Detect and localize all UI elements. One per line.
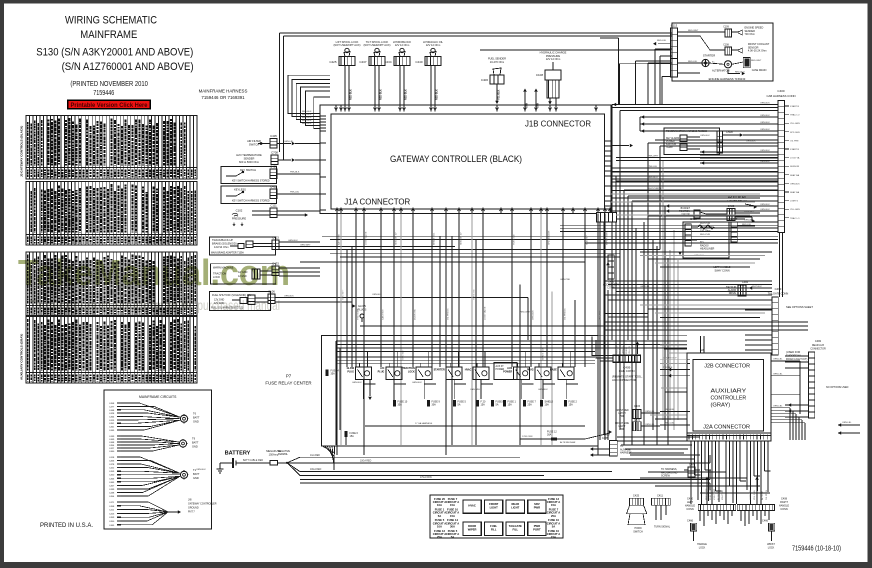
svg-text:C425: C425 bbox=[329, 60, 337, 64]
svg-text:12V 12 Ohm: 12V 12 Ohm bbox=[426, 43, 441, 47]
svg-text:ALTR RECHAR: ALTR RECHAR bbox=[560, 441, 576, 444]
svg-text:J2A CONNECTOR: J2A CONNECTOR bbox=[703, 425, 750, 431]
svg-text:C415: C415 bbox=[109, 420, 115, 422]
svg-text:C416: C416 bbox=[634, 419, 641, 422]
svg-text:STARTER: STARTER bbox=[434, 369, 445, 372]
svg-text:HVAC: HVAC bbox=[465, 369, 472, 372]
svg-text:BATT: BATT bbox=[193, 416, 200, 420]
svg-text:C458: C458 bbox=[109, 506, 115, 508]
svg-text:C415: C415 bbox=[634, 405, 641, 408]
svg-text:C439: C439 bbox=[109, 489, 115, 491]
svg-text:ACD CONNECTOR): ACD CONNECTOR) bbox=[612, 378, 637, 382]
svg-text:10A: 10A bbox=[545, 404, 550, 407]
svg-text:ORN-BLK: ORN-BLK bbox=[532, 310, 534, 320]
svg-text:ALTERNATOR: ALTERNATOR bbox=[712, 69, 730, 73]
svg-text:PLUG: PLUG bbox=[527, 369, 534, 372]
svg-text:(PRINTED NOVEMBER 2010: (PRINTED NOVEMBER 2010 bbox=[70, 79, 147, 88]
svg-text:LOCK VAL: LOCK VAL bbox=[749, 489, 752, 500]
svg-text:KEY SWITCH HARNESS STORED: KEY SWITCH HARNESS STORED bbox=[232, 200, 270, 203]
svg-text:FRONT RED: FRONT RED bbox=[615, 410, 629, 412]
svg-text:ORN-BLK: ORN-BLK bbox=[760, 161, 770, 163]
svg-text:RED-BLU: RED-BLU bbox=[735, 72, 745, 74]
svg-text:FUEL PUM: FUEL PUM bbox=[710, 489, 712, 500]
svg-text:7159446: 7159446 bbox=[93, 88, 114, 97]
svg-text:GRN-PNK: GRN-PNK bbox=[560, 279, 571, 281]
svg-text:SCREW: SCREW bbox=[661, 475, 671, 478]
svg-text:MAINFRAME CIRCUITS: MAINFRAME CIRCUITS bbox=[139, 395, 177, 399]
svg-text:C508: C508 bbox=[726, 130, 733, 134]
svg-text:HORN SW: HORN SW bbox=[473, 288, 475, 300]
svg-text:OIL PRES: OIL PRES bbox=[766, 489, 768, 500]
svg-text:C405: C405 bbox=[270, 134, 277, 138]
svg-text:RED-BLK: RED-BLK bbox=[302, 117, 312, 119]
svg-text:ORN-BLK: ORN-BLK bbox=[790, 183, 800, 185]
svg-text:CAN HIGH: CAN HIGH bbox=[381, 309, 384, 320]
svg-text:ORN-BLK: ORN-BLK bbox=[760, 115, 770, 117]
svg-text:LATCH: LATCH bbox=[618, 412, 626, 415]
svg-text:KEY SWITCH HARNESS STORED: KEY SWITCH HARNESS STORED bbox=[232, 180, 270, 183]
svg-text:RED-BLK: RED-BLK bbox=[302, 123, 312, 125]
svg-text:YEL-BLK: YEL-BLK bbox=[498, 89, 501, 100]
svg-text:DOOR S: DOOR S bbox=[632, 345, 634, 354]
svg-text:C437: C437 bbox=[359, 60, 367, 64]
svg-text:SEAT BA: SEAT BA bbox=[790, 191, 800, 194]
svg-text:10A: 10A bbox=[437, 503, 442, 507]
svg-text:SWITCH: SWITCH bbox=[249, 143, 259, 147]
svg-text:LOCK VALVE: LOCK VALVE bbox=[364, 231, 367, 245]
svg-text:C465: C465 bbox=[109, 525, 115, 527]
svg-text:S130 (S/N A3KY20001 AND ABOVE): S130 (S/N A3KY20001 AND ABOVE) bbox=[36, 47, 193, 59]
svg-text:C102: C102 bbox=[236, 209, 243, 213]
svg-text:GRN-LBL: GRN-LBL bbox=[284, 141, 294, 143]
svg-text:4.0K-30.2K Ohm: 4.0K-30.2K Ohm bbox=[748, 50, 767, 53]
svg-text:J2B CONNECTOR: J2B CONNECTOR bbox=[704, 364, 750, 370]
svg-text:C477: C477 bbox=[109, 406, 115, 408]
svg-text:TRACK/BACK-UP: TRACK/BACK-UP bbox=[212, 238, 233, 242]
svg-text:Printable Version Click Here: Printable Version Click Here bbox=[71, 102, 148, 109]
svg-text:C412: C412 bbox=[270, 185, 277, 189]
svg-text:SWITCH: SWITCH bbox=[633, 530, 643, 533]
svg-text:DOOR SW: DOOR SW bbox=[414, 308, 416, 320]
svg-text:C464: C464 bbox=[109, 417, 115, 419]
svg-text:ORN-LBL: ORN-LBL bbox=[645, 424, 655, 426]
svg-text:(GRAY): (GRAY) bbox=[711, 403, 731, 409]
svg-text:BRAKE SOL: BRAKE SOL bbox=[541, 347, 544, 360]
svg-text:ORN-BLK: ORN-BLK bbox=[700, 135, 710, 137]
svg-text:25A: 25A bbox=[528, 404, 533, 407]
svg-text:C113: C113 bbox=[671, 24, 678, 28]
svg-text:C468: C468 bbox=[109, 442, 115, 444]
svg-text:LIGHTS: LIGHTS bbox=[790, 201, 798, 203]
svg-text:15A: 15A bbox=[481, 404, 486, 407]
svg-text:C418: C418 bbox=[109, 457, 115, 459]
svg-text:PRINTED IN U.S.A.: PRINTED IN U.S.A. bbox=[40, 523, 93, 529]
svg-text:RED-BLK: RED-BLK bbox=[350, 89, 353, 100]
svg-text:AUXILIARY: AUXILIARY bbox=[711, 389, 747, 395]
svg-text:GRN-BLK: GRN-BLK bbox=[352, 382, 362, 384]
svg-text:HYD TEMP: HYD TEMP bbox=[714, 488, 716, 500]
svg-text:30A: 30A bbox=[547, 434, 552, 437]
svg-text:C413: C413 bbox=[109, 513, 115, 515]
svg-text:15A: 15A bbox=[350, 435, 355, 438]
svg-text:12V GND: 12V GND bbox=[214, 302, 225, 305]
svg-text:7159446 (10-18-10): 7159446 (10-18-10) bbox=[792, 546, 841, 553]
svg-text:KEY ALARM: KEY ALARM bbox=[666, 137, 679, 140]
svg-text:GRN-BLK: GRN-BLK bbox=[288, 240, 298, 242]
svg-text:OIL PRE: OIL PRE bbox=[790, 140, 799, 142]
svg-text:TERMNL: TERMNL bbox=[278, 453, 288, 456]
svg-text:C423: C423 bbox=[272, 236, 279, 240]
svg-text:SENDER: SENDER bbox=[244, 157, 255, 161]
svg-text:A08: A08 bbox=[700, 349, 705, 352]
svg-text:C406: C406 bbox=[481, 78, 489, 82]
svg-text:C459: C459 bbox=[109, 471, 115, 473]
svg-text:30A: 30A bbox=[432, 404, 437, 407]
svg-text:ENGINE HARNESS 7159233: ENGINE HARNESS 7159233 bbox=[709, 77, 746, 81]
svg-text:RED-WHT: RED-WHT bbox=[520, 312, 531, 314]
svg-text:GND REF: GND REF bbox=[586, 234, 588, 245]
svg-text:KEYLESS: KEYLESS bbox=[234, 188, 246, 192]
svg-text:PNK-LBL: PNK-LBL bbox=[648, 166, 658, 168]
svg-text:RED-WHT: RED-WHT bbox=[688, 30, 699, 32]
svg-text:ORN-BLK: ORN-BLK bbox=[744, 220, 754, 222]
svg-text:BATT GND: BATT GND bbox=[337, 234, 340, 245]
svg-text:RED-LBL: RED-LBL bbox=[665, 423, 675, 425]
svg-text:OIL PRESS: OIL PRESS bbox=[447, 308, 449, 320]
svg-text:C708: C708 bbox=[271, 151, 278, 155]
svg-text:PWR: PWR bbox=[619, 429, 625, 431]
svg-text:SPD SENSOR: SPD SENSOR bbox=[548, 230, 550, 245]
svg-text:FRONT SIDE: FRONT SIDE bbox=[615, 423, 629, 425]
svg-text:GRN: GRN bbox=[527, 103, 529, 108]
svg-text:25A: 25A bbox=[551, 514, 556, 518]
svg-text:GND: GND bbox=[193, 476, 199, 480]
svg-text:(USED FOR: (USED FOR bbox=[786, 350, 800, 354]
svg-text:700 Ohm: 700 Ohm bbox=[745, 33, 755, 36]
svg-text:C400: C400 bbox=[777, 89, 785, 93]
svg-text:12V 12 Ohm: 12V 12 Ohm bbox=[546, 57, 561, 61]
svg-text:C465: C465 bbox=[109, 482, 115, 484]
svg-text:YEL-GR: YEL-GR bbox=[617, 346, 619, 354]
svg-text:C411: C411 bbox=[657, 494, 664, 498]
svg-text:C448: C448 bbox=[109, 410, 115, 412]
svg-text:SEAT BA: SEAT BA bbox=[790, 174, 800, 177]
svg-text:AIR FILTER: AIR FILTER bbox=[247, 139, 261, 143]
svg-text:C439: C439 bbox=[109, 436, 115, 438]
svg-text:15A: 15A bbox=[551, 503, 556, 507]
svg-text:ORN-LBL: ORN-LBL bbox=[773, 359, 783, 361]
svg-text:C454: C454 bbox=[109, 496, 115, 498]
svg-text:C460: C460 bbox=[109, 451, 115, 453]
svg-text:CAB HARNESS CONN: CAB HARNESS CONN bbox=[766, 94, 795, 98]
svg-text:ORN-BLK: ORN-BLK bbox=[760, 204, 770, 206]
svg-text:PNT 7: PNT 7 bbox=[188, 511, 195, 514]
svg-text:17 GA HARNESS: 17 GA HARNESS bbox=[415, 422, 433, 425]
svg-text:GRN: GRN bbox=[538, 103, 540, 108]
svg-text:(S/N A1Z760001 AND ABOVE): (S/N A1Z760001 AND ABOVE) bbox=[62, 61, 194, 73]
svg-text:RED-LBL: RED-LBL bbox=[665, 409, 675, 411]
svg-text:CAB CONN: CAB CONN bbox=[619, 369, 635, 373]
svg-text:C440: C440 bbox=[415, 60, 423, 64]
svg-text:GLOW: GLOW bbox=[358, 304, 366, 308]
svg-text:150 Ohm: 150 Ohm bbox=[700, 229, 710, 232]
svg-text:5A: 5A bbox=[496, 404, 499, 407]
svg-text:BUCKET: BUCKET bbox=[681, 208, 691, 210]
svg-text:C450: C450 bbox=[109, 475, 115, 477]
svg-text:BATTERY: BATTERY bbox=[225, 451, 251, 457]
svg-text:YEL-GR: YEL-GR bbox=[629, 346, 631, 354]
svg-text:RED-BLK: RED-BLK bbox=[380, 89, 383, 100]
svg-text:C422: C422 bbox=[109, 468, 115, 470]
svg-text:1708 ORN: 1708 ORN bbox=[522, 436, 533, 438]
svg-text:GATEWAY CONTROLLER: GATEWAY CONTROLLER bbox=[188, 503, 217, 506]
svg-text:C435: C435 bbox=[602, 437, 609, 440]
svg-text:The watermark doesnt appear on: The watermark doesnt appear on the sampl… bbox=[30, 298, 191, 313]
svg-text:ORN-BLK: ORN-BLK bbox=[760, 129, 770, 131]
svg-text:ORN-BLK: ORN-BLK bbox=[760, 122, 770, 124]
svg-text:15A: 15A bbox=[450, 503, 455, 507]
svg-text:ORN-LBL: ORN-LBL bbox=[773, 406, 783, 408]
svg-text:AUX FT: AUX FT bbox=[496, 365, 505, 368]
svg-text:FUEL SOL HARNESS 6577123: FUEL SOL HARNESS 6577123 bbox=[211, 307, 244, 310]
svg-text:C471: C471 bbox=[109, 502, 115, 504]
svg-text:C108: C108 bbox=[536, 73, 544, 77]
svg-text:PRESSURE: PRESSURE bbox=[232, 217, 247, 221]
svg-text:PNK-BLK: PNK-BLK bbox=[290, 172, 300, 174]
svg-text:HEADLINER: HEADLINER bbox=[700, 248, 715, 251]
svg-text:ORN-BLK: ORN-BLK bbox=[196, 469, 206, 471]
svg-text:CONNECTOR: CONNECTOR bbox=[810, 348, 826, 351]
svg-text:FILL: FILL bbox=[512, 527, 518, 531]
svg-text:CONN: CONN bbox=[686, 508, 694, 511]
svg-text:BASE: BASE bbox=[550, 369, 557, 372]
svg-text:12V/14 Ohm: 12V/14 Ohm bbox=[214, 245, 229, 249]
svg-text:WIRING SCHEMATIC: WIRING SCHEMATIC bbox=[65, 15, 157, 27]
svg-text:TRAC LO: TRAC LO bbox=[790, 217, 800, 220]
svg-text:WIPER PWR: WIPER PWR bbox=[606, 232, 608, 245]
svg-text:C409: C409 bbox=[270, 165, 277, 169]
svg-text:GATEWAY CONTROLLER (BLACK): GATEWAY CONTROLLER (BLACK) bbox=[390, 154, 522, 164]
svg-text:ORN-LBL: ORN-LBL bbox=[842, 422, 852, 424]
svg-text:C111: C111 bbox=[270, 204, 277, 208]
svg-text:5A: 5A bbox=[451, 535, 454, 539]
svg-text:J/8: J/8 bbox=[188, 498, 192, 502]
svg-text:25A: 25A bbox=[437, 535, 442, 539]
svg-text:600 to 5000 Ohm: 600 to 5000 Ohm bbox=[239, 160, 259, 164]
svg-text:1GA RED: 1GA RED bbox=[310, 454, 320, 457]
svg-text:15A: 15A bbox=[551, 535, 556, 539]
svg-text:PRESS: PRESS bbox=[626, 346, 628, 354]
svg-text:C482: C482 bbox=[815, 339, 822, 343]
svg-text:ORN-BLK: ORN-BLK bbox=[760, 102, 770, 104]
svg-text:10A: 10A bbox=[437, 524, 442, 528]
svg-text:TakeManual.com: TakeManual.com bbox=[18, 252, 290, 293]
svg-text:GRN-BLK: GRN-BLK bbox=[412, 382, 422, 384]
svg-text:IGNITION: IGNITION bbox=[666, 144, 677, 146]
svg-text:OIL PRESS: OIL PRESS bbox=[564, 308, 566, 320]
svg-text:SPD SEN: SPD SEN bbox=[790, 132, 800, 134]
svg-text:C469: C469 bbox=[109, 439, 115, 441]
svg-text:BATT CABLE RED: BATT CABLE RED bbox=[243, 459, 263, 462]
svg-text:10GA RED: 10GA RED bbox=[360, 459, 372, 462]
svg-text:START R: START R bbox=[790, 148, 800, 151]
svg-text:PWR: PWR bbox=[534, 505, 540, 509]
svg-text:POWER: POWER bbox=[503, 370, 512, 373]
svg-text:C457: C457 bbox=[109, 485, 115, 487]
svg-text:AUXILIARY CONTROLS (GRAY): AUXILIARY CONTROLS (GRAY) bbox=[20, 334, 24, 380]
svg-text:PWR: PWR bbox=[619, 416, 625, 418]
svg-text:EUROPEAN: EUROPEAN bbox=[786, 354, 801, 358]
svg-text:C434: C434 bbox=[384, 60, 392, 64]
svg-text:GRN-WHT: GRN-WHT bbox=[342, 289, 344, 300]
svg-text:ORN-LBL: ORN-LBL bbox=[645, 411, 655, 413]
svg-text:7159446 OR 7169391: 7159446 OR 7169391 bbox=[201, 95, 245, 100]
svg-text:CASE DRAIN: CASE DRAIN bbox=[752, 69, 767, 72]
svg-text:GRN-LBL: GRN-LBL bbox=[640, 286, 650, 288]
svg-text:POWER/IGNITION HARNESS 7159382: POWER/IGNITION HARNESS 7159382 bbox=[666, 130, 708, 133]
svg-text:17GA ORN: 17GA ORN bbox=[420, 476, 432, 479]
svg-text:SEE OPTIONS SHEET: SEE OPTIONS SHEET bbox=[786, 305, 813, 309]
svg-text:FUSE RELAY CENTER: FUSE RELAY CENTER bbox=[265, 381, 311, 386]
svg-text:LOCK: LOCK bbox=[699, 546, 706, 549]
svg-text:GND: GND bbox=[193, 420, 199, 424]
svg-text:YEL-GRN: YEL-GRN bbox=[599, 310, 601, 320]
svg-text:C459: C459 bbox=[109, 517, 115, 519]
svg-text:GRN-WHT: GRN-WHT bbox=[402, 349, 404, 360]
svg-text:C487: C487 bbox=[689, 463, 696, 467]
svg-text:C450: C450 bbox=[109, 521, 115, 523]
svg-text:ALT EXC: ALT EXC bbox=[761, 491, 764, 500]
svg-text:MAINFRAME HARNESS: MAINFRAME HARNESS bbox=[199, 89, 248, 94]
svg-text:PNK-LBL: PNK-LBL bbox=[290, 192, 300, 194]
svg-text:C461: C461 bbox=[109, 427, 115, 429]
svg-text:C438: C438 bbox=[109, 493, 115, 495]
svg-text:RED-WHT: RED-WHT bbox=[751, 60, 762, 62]
svg-text:YEL-GRN: YEL-GRN bbox=[754, 490, 756, 500]
svg-text:HVAC: HVAC bbox=[468, 504, 475, 508]
svg-text:BATT: BATT bbox=[192, 441, 199, 445]
svg-text:PLUG: PLUG bbox=[378, 370, 385, 373]
svg-text:HARNESS: HARNESS bbox=[620, 452, 632, 455]
svg-text:15A: 15A bbox=[508, 404, 513, 407]
svg-text:35A: 35A bbox=[331, 373, 336, 376]
svg-text:PRESS SW: PRESS SW bbox=[706, 488, 708, 500]
svg-text:CONTROLLER: CONTROLLER bbox=[711, 396, 747, 402]
svg-text:C425: C425 bbox=[633, 494, 640, 498]
svg-text:MAINFRAME: MAINFRAME bbox=[80, 29, 137, 41]
svg-text:ORN-BLK: ORN-BLK bbox=[746, 141, 756, 143]
svg-text:CONN: CONN bbox=[780, 508, 788, 511]
svg-text:TERM: TERM bbox=[666, 147, 673, 149]
svg-text:FUEL SHUTOFF (SOLENOID) 12V: FUEL SHUTOFF (SOLENOID) 12V bbox=[212, 294, 252, 297]
svg-text:PORT: PORT bbox=[533, 527, 541, 531]
svg-text:HYD TEMP: HYD TEMP bbox=[357, 308, 359, 320]
svg-text:H2O TEMPERATURE: H2O TEMPERATURE bbox=[236, 153, 262, 157]
svg-text:WHT-PURPHT: WHT-PURPHT bbox=[648, 188, 663, 190]
svg-text:C445: C445 bbox=[109, 430, 115, 432]
svg-text:LOCK VALVE: LOCK VALVE bbox=[483, 306, 486, 320]
svg-text:LIGHT: LIGHT bbox=[619, 426, 626, 428]
svg-text:WHT-PUR: WHT-PUR bbox=[700, 223, 711, 225]
svg-text:J1A CONNECTOR: J1A CONNECTOR bbox=[344, 198, 410, 207]
svg-text:NO OPTIONS USED: NO OPTIONS USED bbox=[826, 386, 849, 389]
svg-text:10GA RED: 10GA RED bbox=[310, 468, 322, 471]
svg-text:C466: C466 bbox=[762, 520, 769, 523]
svg-text:TRAC LO: TRAC LO bbox=[790, 114, 800, 117]
svg-text:LIGHT: LIGHT bbox=[490, 505, 498, 509]
svg-text:RED-PUR: RED-PUR bbox=[700, 234, 710, 236]
svg-text:C451: C451 bbox=[109, 423, 115, 425]
svg-text:12V 12 Ohm: 12V 12 Ohm bbox=[395, 43, 410, 47]
svg-text:GRN-BLK: GRN-BLK bbox=[538, 389, 548, 391]
svg-text:BATT: BATT bbox=[193, 472, 200, 476]
svg-text:WIPER: WIPER bbox=[468, 527, 477, 531]
svg-text:RED-BLK: RED-BLK bbox=[302, 120, 312, 122]
svg-text:RED-BLK: RED-BLK bbox=[302, 114, 312, 116]
svg-text:BRAKE SOL: BRAKE SOL bbox=[432, 232, 435, 245]
svg-text:STARTER: STARTER bbox=[703, 54, 715, 58]
svg-text:GRN-WHT: GRN-WHT bbox=[300, 245, 311, 247]
svg-text:LIGHT: LIGHT bbox=[511, 505, 519, 509]
svg-text:TRC-BLK: TRC-BLK bbox=[663, 367, 673, 369]
svg-text:C456: C456 bbox=[109, 461, 115, 463]
svg-text:YEL-GRN: YEL-GRN bbox=[790, 123, 800, 125]
svg-text:GROUND: GROUND bbox=[188, 507, 199, 510]
svg-text:C427: C427 bbox=[109, 448, 115, 450]
svg-text:RED-BLK: RED-BLK bbox=[436, 89, 439, 100]
svg-text:HORN SW: HORN SW bbox=[513, 233, 515, 245]
svg-text:ORN-BLK: ORN-BLK bbox=[284, 296, 294, 298]
svg-text:LOCK VA: LOCK VA bbox=[790, 157, 800, 160]
svg-text:OIL PR: OIL PR bbox=[620, 347, 622, 354]
svg-text:C411: C411 bbox=[109, 510, 115, 512]
svg-text:5A: 5A bbox=[458, 404, 461, 407]
svg-text:RED-LBL: RED-LBL bbox=[657, 40, 667, 42]
svg-text:J3 GATEWAY CONTROLS (BLACK): J3 GATEWAY CONTROLS (BLACK) bbox=[20, 126, 24, 177]
svg-text:SENSOR 5V: SENSOR 5V bbox=[395, 232, 397, 245]
svg-text:RED-BLK: RED-BLK bbox=[302, 111, 312, 113]
svg-text:FILL: FILL bbox=[491, 527, 497, 531]
svg-text:WHL REGRIP: WHL REGRIP bbox=[663, 357, 677, 359]
svg-text:SENSOR 5V: SENSOR 5V bbox=[460, 232, 462, 245]
svg-text:C428: C428 bbox=[109, 413, 115, 415]
svg-text:ALT EXC: ALT EXC bbox=[717, 491, 720, 500]
svg-text:DRIVE: DRIVE bbox=[729, 292, 737, 295]
svg-text:RED-LBL: RED-LBL bbox=[742, 224, 752, 226]
svg-text:RED-LBL: RED-LBL bbox=[688, 61, 698, 63]
svg-text:PNK-WHT: PNK-WHT bbox=[648, 155, 659, 157]
svg-text:SWAY CONN: SWAY CONN bbox=[714, 269, 729, 272]
svg-text:ORN-BLK: ORN-BLK bbox=[760, 150, 770, 152]
svg-text:ROAD LIGHT KIT): ROAD LIGHT KIT) bbox=[786, 357, 808, 361]
svg-text:C466: C466 bbox=[109, 478, 115, 480]
svg-text:C109: C109 bbox=[723, 27, 729, 29]
svg-text:BRAKE (SOLENOID): BRAKE (SOLENOID) bbox=[212, 242, 237, 246]
svg-text:C490: C490 bbox=[775, 287, 782, 291]
svg-text:35A: 35A bbox=[398, 404, 403, 407]
svg-text:ORN-BLK: ORN-BLK bbox=[760, 209, 770, 211]
svg-text:30A: 30A bbox=[450, 524, 455, 528]
svg-text:LOCK: LOCK bbox=[768, 546, 775, 549]
svg-text:ORN-BL: ORN-BL bbox=[623, 345, 625, 354]
svg-text:LOCK: LOCK bbox=[408, 370, 415, 373]
svg-text:C108: C108 bbox=[723, 45, 729, 47]
svg-text:GRN-LBL: GRN-LBL bbox=[773, 374, 783, 376]
svg-text:10-470 Ohm: 10-470 Ohm bbox=[490, 60, 504, 64]
svg-text:(NOT USED/OPT AUX): (NOT USED/OPT AUX) bbox=[364, 43, 391, 47]
svg-text:15A: 15A bbox=[450, 514, 455, 518]
svg-text:START R: START R bbox=[790, 105, 800, 108]
